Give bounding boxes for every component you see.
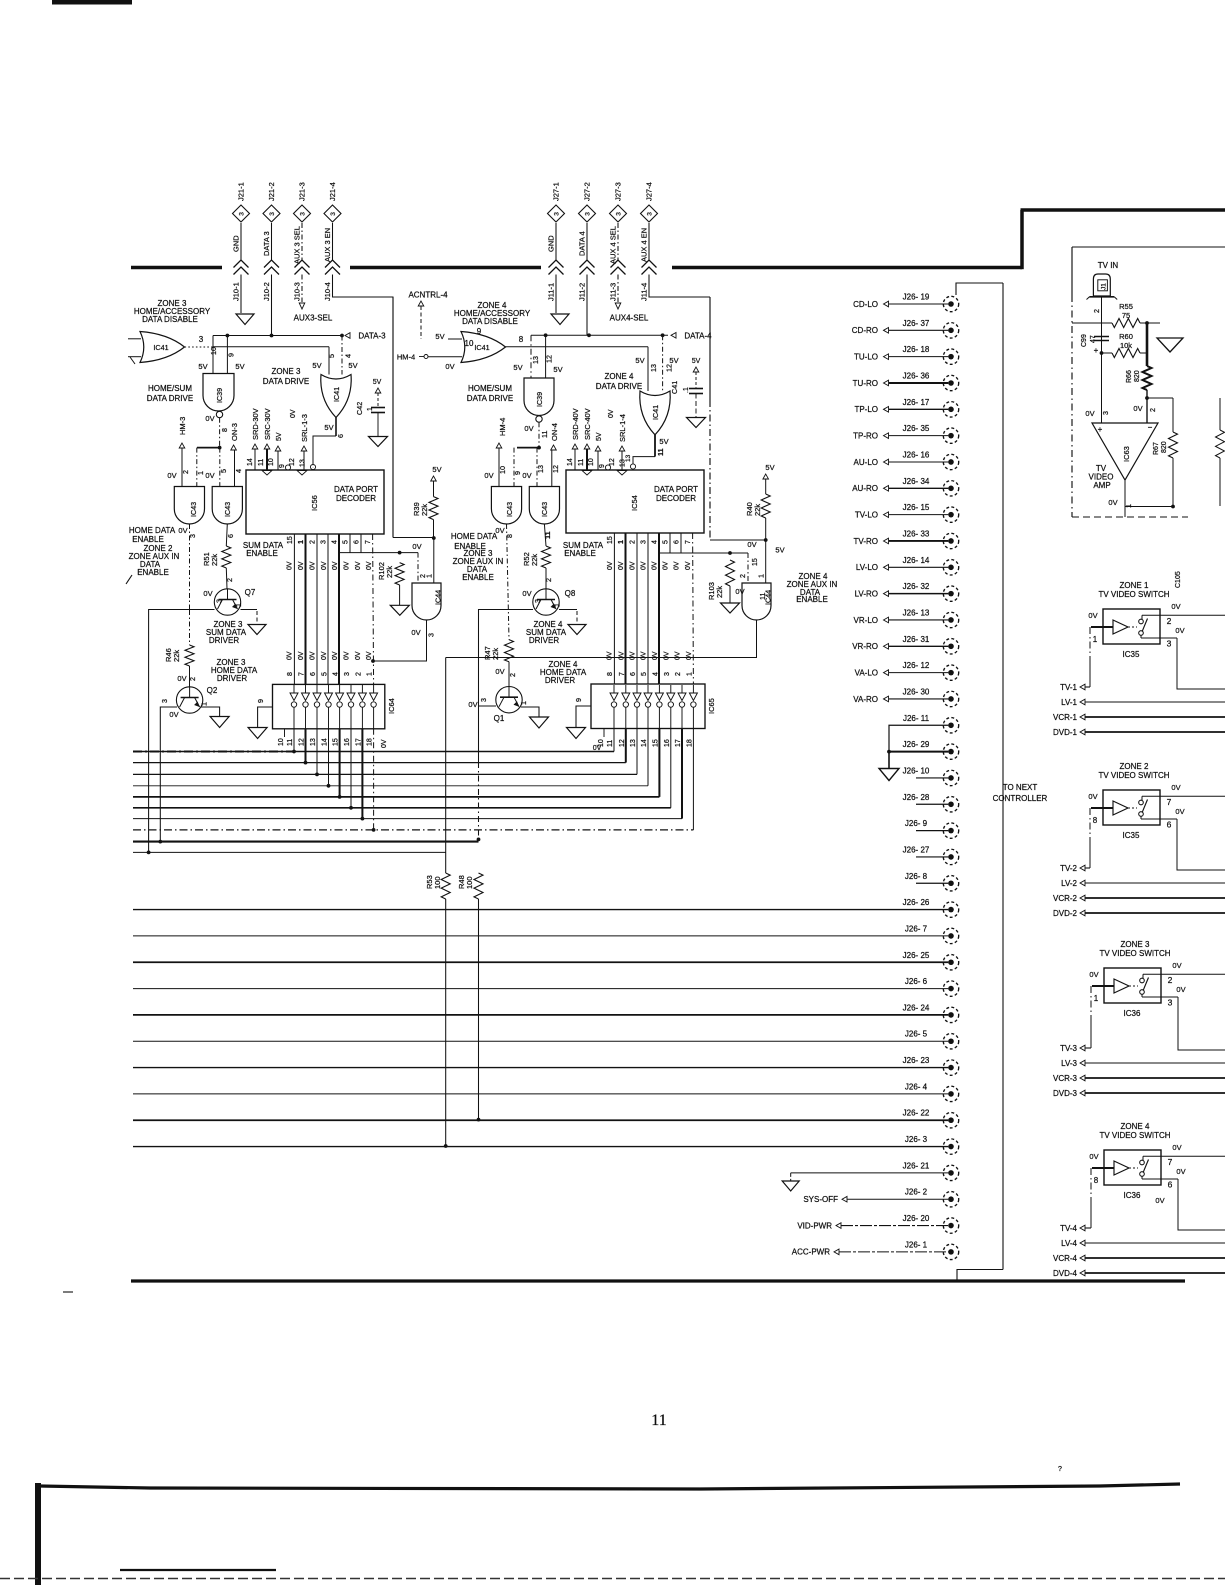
arrow AU-LO (884, 459, 889, 465)
svg-text:0V: 0V (484, 471, 493, 480)
svg-text:15: 15 (333, 738, 340, 746)
svg-text:13: 13 (531, 356, 540, 364)
svg-text:3: 3 (616, 212, 623, 216)
wire IC44b pin1 (765, 540, 767, 583)
svg-text:820: 820 (1134, 370, 1141, 382)
svg-text:7: 7 (1167, 797, 1172, 807)
wire IC39b out dashdot (538, 422, 540, 447)
diode D8 IC64 (370, 685, 378, 729)
wire pin9 vertical (226, 336, 228, 374)
node IC64 pin15 junction (338, 795, 342, 799)
or-gate IC41 zone4 disable (461, 332, 506, 363)
wire SRL-1-4 (621, 451, 623, 470)
pin 1 zone3 (1094, 994, 1099, 1003)
connector J21-3 label (298, 182, 307, 201)
connector chevron J11-1 (549, 260, 564, 275)
pin2 Q7 (225, 578, 234, 582)
svg-text:0V: 0V (412, 542, 421, 551)
svg-text:C99: C99 (1081, 334, 1088, 347)
label 0V b zone3 (1176, 985, 1185, 994)
label IC41 zone3 disable (153, 343, 168, 352)
label ON-4 (550, 423, 559, 441)
bus line L10 (133, 851, 446, 853)
wire opamp out (1124, 480, 1126, 507)
svg-text:5V: 5V (513, 363, 522, 372)
pin1 label IC44b (757, 574, 766, 578)
svg-text:3: 3 (647, 212, 654, 216)
net label LV-RO (855, 589, 878, 598)
label data port decoder z3 (334, 485, 378, 503)
svg-text:J26- 34: J26- 34 (903, 477, 930, 486)
label 5V IC44b pin1 (775, 546, 784, 555)
wire out a zone4 (1178, 1155, 1225, 1157)
svg-text:IC41: IC41 (332, 387, 341, 402)
arrow SRC-30V (264, 444, 270, 449)
label R53 (425, 875, 442, 889)
bus L1 left dashdot overlay (133, 751, 296, 753)
connector J21-1 diamond (233, 205, 250, 222)
wire IC41b in top (448, 338, 462, 340)
label LV-1 (1061, 698, 1077, 707)
label 15 IC44b (752, 558, 759, 566)
wire DVD-1 (1085, 731, 1225, 733)
svg-text:AUX 4 EN: AUX 4 EN (640, 228, 649, 262)
wire Q1 collector (479, 705, 497, 707)
title zone3 data drive (263, 367, 309, 386)
svg-text:J26- 1: J26- 1 (905, 1240, 928, 1249)
svg-text:AU-LO: AU-LO (854, 458, 878, 467)
wire IC65 pin11 to L1 (613, 729, 615, 752)
wire R40 bottom (765, 518, 767, 540)
label IC56 (310, 495, 319, 511)
label IC39 zone3 (215, 388, 224, 403)
jack J26-28 (943, 797, 958, 812)
svg-text:0V: 0V (641, 651, 648, 660)
svg-text:J10-3: J10-3 (293, 282, 302, 301)
label DVD-4 (1053, 1269, 1078, 1278)
wire TV-LO (889, 514, 948, 516)
wire input drop zone1 (1089, 627, 1091, 687)
label 5V left IC39a (198, 362, 207, 371)
label 5V R39 (432, 465, 441, 474)
wire out a zone2 (1177, 795, 1225, 797)
wire IC64 pin15 to L5 (339, 729, 341, 797)
wire R48 down (478, 899, 480, 1120)
svg-text:J21-2: J21-2 (267, 182, 276, 201)
tvin box top (1072, 246, 1225, 248)
connector chevron J10-4 (325, 260, 340, 275)
svg-text:0V: 0V (1088, 611, 1097, 620)
svg-text:22k: 22k (172, 650, 181, 662)
wire IC44b-out corner down (445, 658, 447, 874)
svg-text:14: 14 (322, 738, 329, 746)
switch box IC36 zone3 (1104, 968, 1161, 1003)
label J26-28 (903, 793, 930, 802)
svg-text:22k: 22k (491, 648, 500, 660)
switch wire b zone2 (1141, 816, 1177, 819)
node IC64 pin16 junction (349, 806, 353, 810)
wire Q2 collector (160, 707, 177, 842)
label DVD-2 (1053, 909, 1078, 918)
diode D8 IC65 (689, 685, 697, 729)
wire R60 right (1140, 352, 1147, 354)
opamp IC63 (1092, 423, 1158, 480)
svg-text:1: 1 (196, 471, 205, 475)
bus wire J26-7 (133, 935, 948, 937)
label 0V IC43a out (178, 526, 187, 535)
label 0V at IC39a out (205, 414, 214, 423)
svg-text:4: 4 (234, 469, 243, 473)
wire R39 top (433, 481, 435, 497)
arrow TP-RO (884, 433, 889, 439)
svg-text:0V: 0V (1175, 626, 1184, 635)
wire IC41a output dotted (185, 346, 214, 348)
wire J26-29 thick (889, 751, 948, 753)
svg-text:5V: 5V (198, 362, 207, 371)
label J26-2 (905, 1188, 928, 1197)
svg-text:J26- 36: J26- 36 (903, 371, 930, 380)
label HM-4 b (498, 418, 507, 436)
pin1 Q7 (234, 603, 243, 607)
svg-text:DATA-4: DATA-4 (684, 331, 712, 340)
jack J26-2 (943, 1192, 958, 1207)
diode array IC65 box (591, 684, 705, 729)
arrow VCR-2 (1080, 895, 1085, 901)
jack J26-32 (943, 586, 958, 601)
border top segment 3 (672, 266, 1022, 270)
wire z3 553 bus (340, 552, 418, 554)
svg-text:5V: 5V (235, 362, 244, 371)
wire TP-LO (889, 408, 948, 410)
jack J26-10 (943, 770, 958, 785)
label J26-9 (905, 819, 928, 828)
connector J27-3 label (614, 182, 623, 201)
wire J11-1 upper (555, 223, 557, 261)
pin 3 zone1 (1167, 639, 1172, 649)
pin labels IC43ab z3 (181, 469, 243, 475)
svg-text:5: 5 (322, 672, 329, 676)
border top segment 1 (131, 266, 222, 270)
bus wire J26-22 (133, 1119, 948, 1121)
svg-text:DATA 3: DATA 3 (262, 231, 271, 256)
svg-text:3: 3 (330, 212, 337, 216)
jack J26-15 (943, 507, 958, 522)
bus line L3 (133, 773, 637, 775)
svg-text:0V: 0V (1171, 783, 1180, 792)
wire opamp out down (1124, 507, 1126, 518)
label J26-5 (905, 1030, 928, 1039)
resistor R66 (1143, 366, 1152, 390)
pin2 opamp (1148, 408, 1157, 412)
net label DATA 4 (578, 231, 587, 256)
wire VCR-3 (1085, 1077, 1225, 1079)
svg-text:DRIVER: DRIVER (545, 676, 575, 685)
wire TV-4 (1085, 1227, 1091, 1229)
title zone4 sum data driver (526, 620, 567, 645)
svg-text:16: 16 (664, 739, 671, 747)
label Q2 (207, 686, 218, 695)
svg-text:ACC-PWR: ACC-PWR (792, 1248, 830, 1257)
svg-text:DATA 4: DATA 4 (578, 231, 587, 256)
wire AU-RO (889, 487, 948, 489)
label 0V Q1 coll (468, 700, 477, 709)
label R66 (1126, 370, 1141, 383)
wire DVD-3 (1085, 1092, 1225, 1094)
wire IC54 pin7 to IC65 (692, 533, 695, 684)
net label DATA 3 (262, 231, 271, 256)
wire DVD-4 (1085, 1272, 1225, 1274)
arrow VA-RO (884, 696, 889, 702)
arrow VCR-3 (1080, 1075, 1085, 1081)
arrow VR-LO (884, 617, 889, 623)
capacitor C99 (1094, 337, 1109, 341)
ground R103 (721, 603, 740, 613)
svg-text:SRC-40V: SRC-40V (583, 408, 592, 440)
label 5V rot z3dec (276, 432, 283, 441)
pin 8 zone4 (1094, 1176, 1099, 1185)
IC65 bottom pin labels (598, 739, 693, 747)
wire SRL-1-3 (303, 451, 305, 470)
svg-text:J26- 32: J26- 32 (903, 582, 930, 591)
svg-text:ZONE 3: ZONE 3 (1121, 940, 1150, 949)
title zone4 data drive (596, 372, 642, 391)
net label AUX 3 SEL (293, 226, 302, 264)
diode D1 IC64 (290, 685, 298, 729)
svg-text:J10-1: J10-1 (232, 282, 241, 301)
node data4 column (587, 333, 591, 337)
ground R102 (390, 605, 409, 615)
pin9 label IC64 (256, 699, 265, 703)
svg-text:0V: 0V (652, 561, 659, 570)
jack J26-7 (943, 928, 958, 943)
label R39 (412, 502, 429, 516)
node R55 out (1145, 321, 1149, 325)
jack J26-19 (943, 296, 958, 311)
node IC44a out join (371, 659, 375, 663)
wire data-4 bus (531, 334, 668, 336)
label minus opamp (1148, 423, 1153, 432)
bus line L4 (133, 785, 648, 787)
node C99/R60 (1100, 351, 1104, 355)
svg-text:VCR-1: VCR-1 (1053, 713, 1078, 722)
wire SRD-30V (254, 449, 256, 470)
svg-text:AUX 4 SEL: AUX 4 SEL (609, 226, 618, 264)
svg-text:DRIVER: DRIVER (529, 636, 559, 645)
pin 7 zone2 (1167, 797, 1172, 807)
bottom short rule (120, 1569, 276, 1571)
net label LV-LO (856, 563, 878, 572)
svg-text:0V: 0V (674, 561, 681, 570)
svg-text:VA-RO: VA-RO (853, 695, 878, 704)
label C99 (1081, 334, 1088, 347)
switch dashes zone2 (1128, 807, 1137, 809)
arrow SRD-30V (252, 444, 258, 449)
svg-text:J26- 31: J26- 31 (903, 635, 930, 644)
wire IC64 pin11 to L1 (293, 729, 295, 752)
0V row mid z4 (607, 561, 692, 570)
svg-text:DECODER: DECODER (336, 494, 376, 503)
resistor R103 (726, 560, 735, 586)
label J26-37 (903, 319, 930, 328)
wire VA-LO (889, 672, 948, 674)
svg-text:HOME DATA: HOME DATA (451, 532, 498, 541)
wire IC44a pin1 (433, 538, 435, 583)
svg-text:3: 3 (554, 212, 561, 216)
svg-text:0V: 0V (298, 561, 305, 570)
jack J26-13 (943, 612, 958, 627)
connector chevron J11-4 (642, 260, 657, 275)
label IC44 z3 (434, 590, 443, 605)
pin1 Q8 (553, 603, 562, 607)
svg-text:3: 3 (585, 212, 592, 216)
label Q1 (494, 714, 505, 723)
svg-text:22k: 22k (210, 554, 219, 566)
arrow TV-4 (1080, 1225, 1085, 1231)
ground IC64 pin9 (248, 728, 267, 739)
svg-text:DECODER: DECODER (656, 494, 696, 503)
jack J26-33 (943, 533, 958, 548)
node R53 to J26-3 line (444, 1144, 448, 1148)
connector J21-4 diamond (324, 205, 341, 222)
title zone3 home data driver (211, 658, 258, 683)
svg-text:0V: 0V (663, 651, 670, 660)
svg-text:2: 2 (181, 470, 190, 474)
wire IC64 pin13 to L3 (316, 729, 318, 775)
svg-text:9: 9 (256, 699, 265, 703)
label J26-22 (903, 1109, 930, 1118)
label 0V minus in (1133, 404, 1142, 413)
svg-text:IC41: IC41 (474, 343, 489, 352)
label J26-31 (903, 635, 930, 644)
svg-text:ZONE 4: ZONE 4 (1121, 1122, 1150, 1131)
pin3 Q7 (215, 599, 224, 603)
svg-text:IC43: IC43 (505, 502, 514, 517)
wire IC54 pin4 to IC65 (658, 533, 660, 684)
svg-text:22k: 22k (715, 586, 724, 598)
svg-text:TV VIDEO SWITCH: TV VIDEO SWITCH (1099, 1131, 1170, 1140)
transistor Q2 (176, 687, 202, 713)
svg-text:Q2: Q2 (207, 686, 218, 695)
pin 13 stub z4 (625, 454, 632, 462)
connector J27-1 label (552, 182, 561, 201)
label 0V Q2 coll (169, 710, 178, 719)
svg-text:J26- 30: J26- 30 (903, 687, 930, 696)
label 5V drive left z4 (635, 356, 644, 365)
svg-text:11: 11 (758, 593, 767, 600)
svg-text:8: 8 (220, 428, 229, 432)
wire IC43b out (226, 524, 227, 546)
svg-text:22k: 22k (753, 504, 762, 516)
node J26-29 (887, 750, 891, 754)
svg-text:J26- 35: J26- 35 (903, 424, 930, 433)
diode D4 IC65 (644, 685, 652, 729)
pin 13 circle z3 (312, 466, 314, 468)
wire R40 top (765, 479, 767, 494)
svg-text:6: 6 (630, 672, 637, 676)
bus wire J26-3 (133, 1146, 948, 1148)
svg-text:VCR-3: VCR-3 (1053, 1074, 1078, 1083)
wire feedback down (1172, 458, 1174, 507)
arrow TU-LO (884, 354, 889, 360)
wire J10-2 lower (271, 275, 273, 336)
svg-text:J27-2: J27-2 (583, 182, 592, 201)
svg-text:J26- 6: J26- 6 (905, 977, 928, 986)
svg-text:TV-2: TV-2 (1060, 864, 1077, 873)
wire IC41a out corner (328, 347, 330, 375)
pin label J10-1 (232, 282, 241, 301)
decoder IC54 bottom pin labels (607, 536, 692, 544)
net label TP-RO (853, 431, 878, 440)
buffer triangle zone4 (1114, 1161, 1129, 1175)
jack J26-37 (943, 323, 958, 338)
label R46 (164, 648, 181, 662)
label 0V a zone4 (1172, 1143, 1181, 1152)
pin2 Q2 (188, 677, 197, 681)
svg-text:ENABLE: ENABLE (132, 535, 164, 544)
arrow DVD-3 (1080, 1090, 1085, 1096)
label 5V drive out z4 (659, 437, 668, 446)
pin 5 label drivez3 (327, 354, 336, 358)
wire LV-4 (1085, 1242, 1225, 1244)
label R52 (522, 552, 539, 566)
svg-text:J26- 17: J26- 17 (903, 398, 930, 407)
svg-text:15: 15 (607, 536, 614, 544)
label home data enable z4 (451, 532, 498, 551)
label 0V ic44b (747, 540, 756, 549)
and IC43d z4 (529, 487, 559, 525)
node R48 to J26-22 line (477, 1118, 481, 1122)
svg-text:HOME/SUM: HOME/SUM (468, 384, 512, 393)
connector J27-2 diamond (579, 205, 596, 222)
pin 3 zone3 (1168, 998, 1173, 1008)
svg-text:0V: 0V (1172, 961, 1181, 970)
switch wire a zone2 (1142, 796, 1225, 800)
decoder IC54 box (566, 470, 704, 533)
pin 2 zone1 (1167, 616, 1172, 626)
svg-text:12: 12 (545, 355, 554, 363)
bus wire J26-6 (133, 988, 948, 990)
pin label J10-4 (323, 282, 332, 301)
wire R39 bottom (433, 520, 435, 538)
label 0V Q2 (177, 674, 186, 683)
label DATA-3 (358, 332, 386, 341)
label sum data enable z3 (243, 541, 284, 558)
wire SYS-OFF (847, 1198, 948, 1200)
border bottom (131, 1279, 1185, 1282)
svg-text:+: + (1094, 346, 1099, 355)
svg-text:0V: 0V (177, 674, 186, 683)
svg-text:7: 7 (1168, 1157, 1173, 1167)
svg-text:7: 7 (685, 540, 692, 544)
connector J27-2 label (583, 182, 592, 201)
node IC64 pin18 junction (372, 828, 376, 832)
diode D3 IC65 (633, 685, 641, 729)
wire feedback top (1147, 397, 1173, 399)
label 5V drive out z3 (324, 423, 333, 432)
wire C42 top dash (377, 393, 379, 407)
net label VR-LO (854, 616, 878, 625)
svg-text:3: 3 (1101, 411, 1110, 415)
svg-text:10: 10 (278, 738, 285, 746)
svg-text:8: 8 (519, 335, 524, 344)
title zone3 tv video switch (1099, 940, 1170, 958)
svg-text:J21-4: J21-4 (328, 182, 337, 201)
node R102 tap (398, 551, 402, 555)
label IC41 zone4 disable (474, 343, 489, 352)
bus line L1 (133, 751, 614, 753)
pin1 opamp (1124, 504, 1133, 508)
wire Q1 coll down dash (478, 762, 480, 839)
